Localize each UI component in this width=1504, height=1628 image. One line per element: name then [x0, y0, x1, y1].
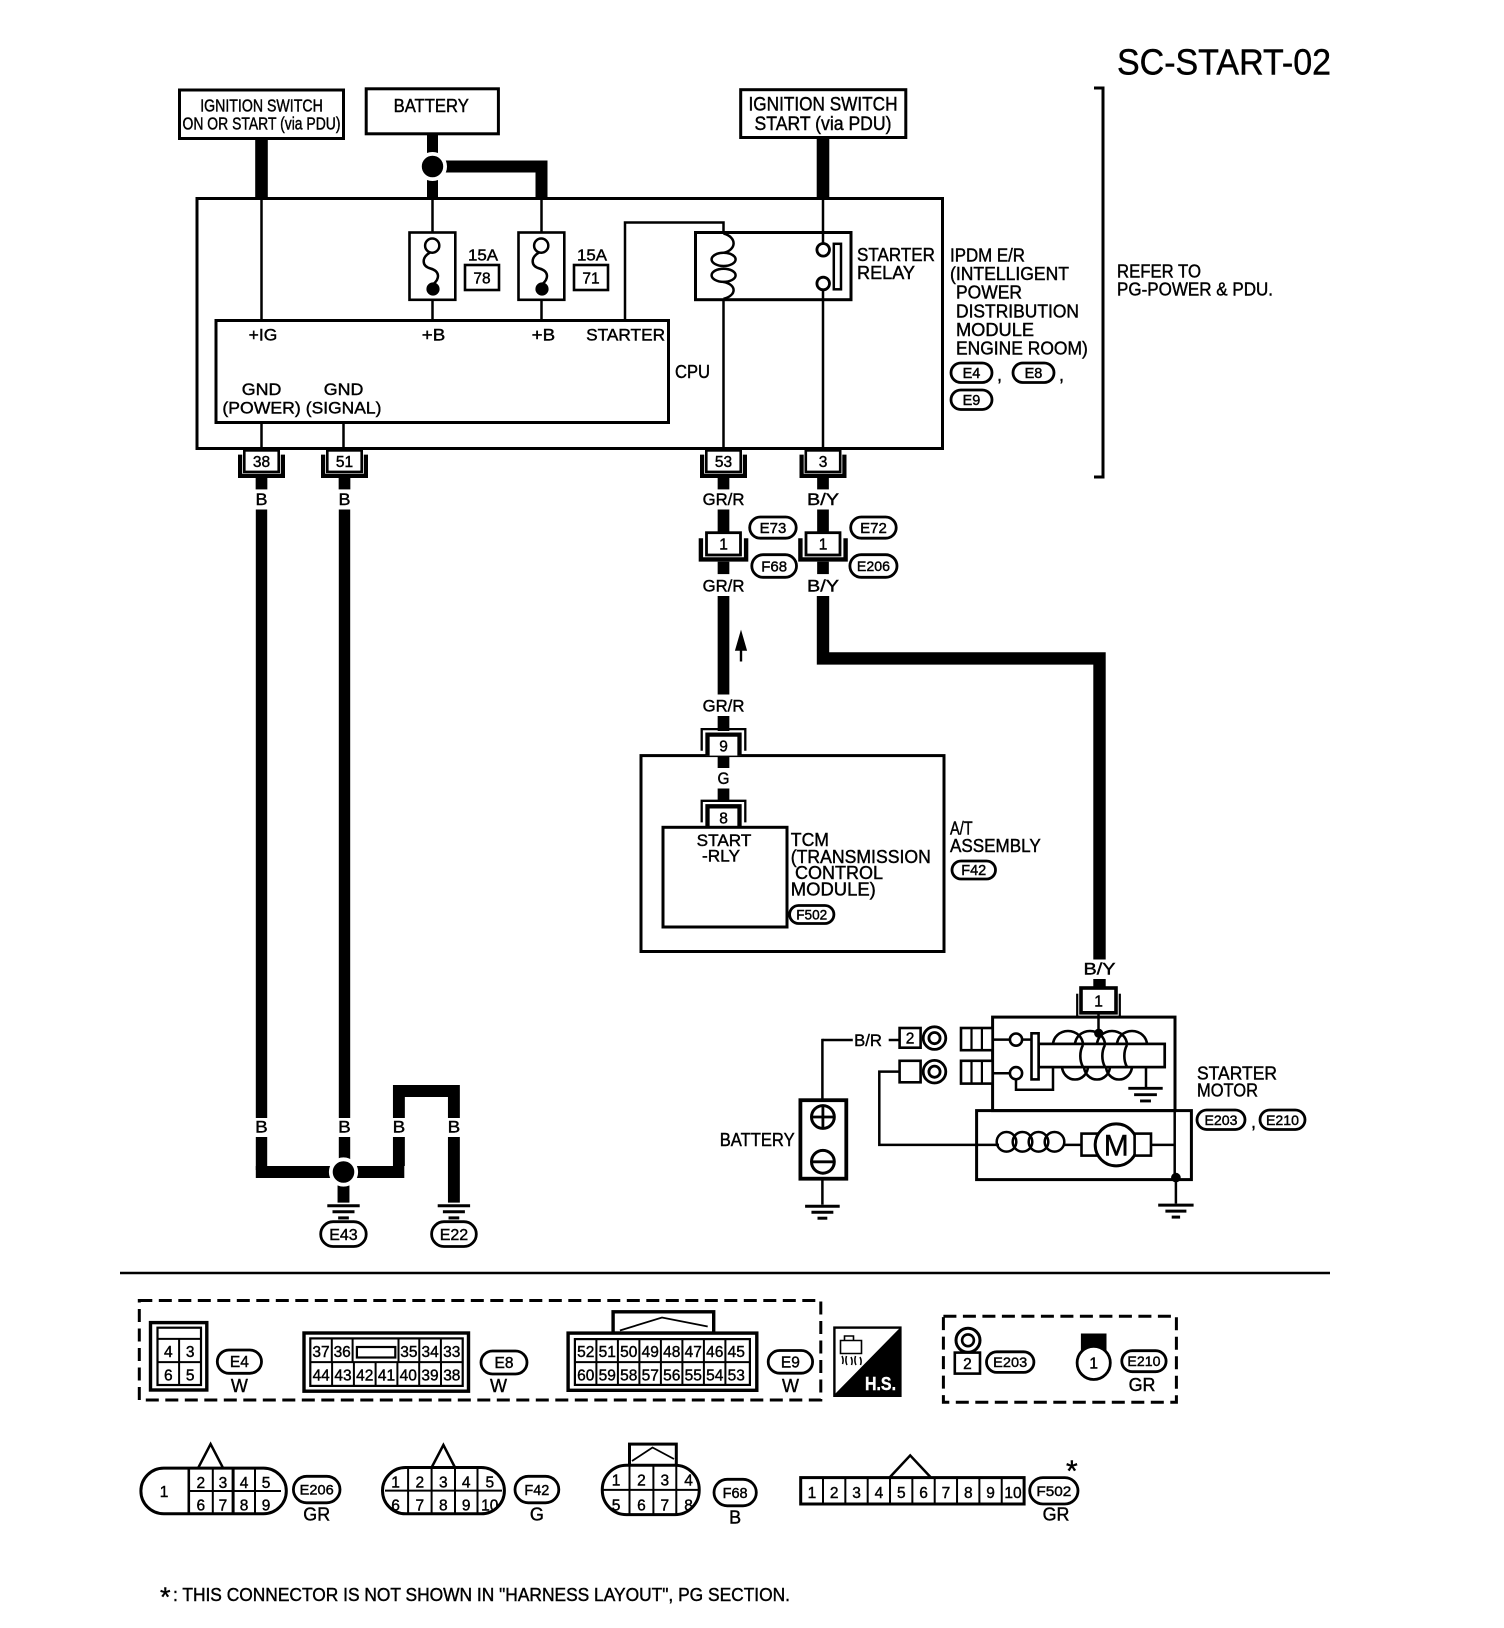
- connector ref E43: [321, 1222, 367, 1247]
- svg-text:15A: 15A: [468, 247, 499, 264]
- solenoid core bar: [1039, 1044, 1165, 1067]
- wire label B (left wire 4): [446, 1118, 463, 1137]
- wire stub below pin 51: [339, 478, 351, 489]
- connector ref F42 (detail): [515, 1476, 559, 1503]
- terminal hatch (upper): [961, 1028, 993, 1050]
- solenoid terminal circle (lower): [1010, 1067, 1022, 1079]
- svg-text:2: 2: [830, 1485, 839, 1502]
- H.S. logo connector pictogram: [841, 1336, 862, 1354]
- svg-text:B: B: [256, 490, 268, 509]
- wire: junction to ground: [1175, 1180, 1178, 1204]
- wire: fuse 71 top lead: [540, 199, 543, 234]
- connector ref F502: [790, 906, 834, 924]
- svg-text:REFER TO: REFER TO: [1117, 262, 1201, 282]
- svg-text:F42: F42: [524, 1483, 549, 1499]
- svg-text:B: B: [338, 1118, 351, 1137]
- module: A/T ASSEMBLY box: [641, 756, 944, 952]
- wire: pin 38 to ground E43 (B): [256, 510, 267, 1119]
- svg-text:3: 3: [660, 1473, 669, 1490]
- wire: field coil to motor brush: [1064, 1144, 1082, 1147]
- svg-text:2: 2: [415, 1475, 424, 1492]
- wire label GR/R (above TCM pin 9): [701, 697, 747, 716]
- svg-text:1: 1: [391, 1475, 400, 1492]
- svg-text:POWER: POWER: [956, 283, 1022, 303]
- wire: hatch to lower terminal: [993, 1072, 1010, 1075]
- wire: ignition switch on/start to IPDM +IG (thick B+): [255, 139, 268, 198]
- svg-text:(INTELLIGENT: (INTELLIGENT: [950, 264, 1069, 284]
- svg-text:7: 7: [660, 1498, 669, 1515]
- svg-text:9: 9: [986, 1485, 995, 1502]
- ground symbol E43: [327, 1204, 359, 1207]
- relay: STARTER RELAY box: [696, 233, 852, 300]
- svg-text:DISTRIBUTION: DISTRIBUTION: [956, 301, 1079, 321]
- connector ref E206 (detail): [293, 1476, 340, 1503]
- wire stub below pin 53: [718, 478, 730, 489]
- svg-text:3: 3: [439, 1475, 448, 1492]
- svg-text:GR/R: GR/R: [703, 490, 745, 509]
- connector ref F68: [752, 555, 797, 578]
- wire: inverted-U branch to ground E22 (B): [399, 1091, 454, 1166]
- svg-text:E8: E8: [1025, 366, 1043, 382]
- wire: fuse 71 bottom lead to CPU +B: [540, 300, 543, 321]
- pin 38 box: [244, 450, 278, 472]
- svg-text:,: ,: [997, 365, 1002, 385]
- motor field coil loops: [997, 1132, 1017, 1152]
- connector face F68: [630, 1444, 677, 1466]
- svg-text:B: B: [339, 490, 351, 509]
- pin 9 box: [706, 732, 742, 755]
- ground symbol E22: [438, 1204, 470, 1207]
- svg-text:59: 59: [599, 1367, 616, 1384]
- connector ref E203 (detail): [987, 1352, 1034, 1373]
- block: BATTERY: [366, 89, 498, 134]
- svg-text:IGNITION SWITCH: IGNITION SWITCH: [749, 95, 898, 116]
- motor armature M: [1095, 1124, 1137, 1166]
- fuse 78 (15A): [410, 233, 456, 300]
- connector face F502: [890, 1455, 932, 1477]
- wire: CPU GND(SIGNAL) to pin 51: [342, 423, 345, 452]
- svg-text:MOTOR: MOTOR: [1197, 1081, 1258, 1101]
- svg-text:2: 2: [963, 1356, 972, 1373]
- svg-text:E72: E72: [860, 520, 887, 537]
- svg-text:B/Y: B/Y: [1084, 960, 1116, 979]
- svg-text:42: 42: [356, 1367, 373, 1384]
- starter relay coil: [723, 234, 733, 253]
- wire: lower terminal to winding: [1016, 1067, 1053, 1090]
- wire stub below in-line connector at x=723.5: [718, 562, 730, 574]
- svg-text:38: 38: [253, 454, 270, 471]
- separator rule: [120, 1272, 1330, 1275]
- connector ref E210 (detail): [1122, 1351, 1166, 1372]
- svg-text:2: 2: [196, 1475, 205, 1492]
- motor brush (left): [1082, 1134, 1098, 1156]
- svg-text:9: 9: [262, 1498, 271, 1515]
- svg-text:ASSEMBLY: ASSEMBLY: [950, 836, 1041, 856]
- connector ref F68 (detail): [714, 1479, 756, 1506]
- svg-text:7: 7: [942, 1485, 951, 1502]
- svg-text:: THIS CONNECTOR IS NOT SHOWN: : THIS CONNECTOR IS NOT SHOWN IN "HARNES…: [173, 1585, 790, 1605]
- module: starter motor solenoid box: [993, 1017, 1175, 1111]
- svg-text:1: 1: [160, 1484, 169, 1501]
- svg-text:35: 35: [400, 1344, 417, 1361]
- svg-text:60: 60: [577, 1367, 595, 1384]
- svg-text:50: 50: [620, 1344, 638, 1361]
- svg-text:2: 2: [906, 1030, 915, 1047]
- module: IPDM E/R box: [197, 199, 943, 449]
- wire label B (pin 38): [254, 491, 270, 510]
- svg-text:IGNITION SWITCH: IGNITION SWITCH: [200, 96, 323, 116]
- svg-text:F502: F502: [796, 907, 827, 922]
- svg-text:GR: GR: [1129, 1375, 1156, 1395]
- wire label B/Y (above starter pin 1): [1082, 960, 1118, 979]
- svg-text:B/Y: B/Y: [807, 490, 839, 509]
- svg-text:GND: GND: [324, 380, 364, 399]
- wire stub below pin 3: [817, 478, 829, 489]
- connector ref E206: [850, 555, 897, 578]
- solenoid winding (upper arcs): [1053, 1031, 1083, 1045]
- svg-text:B/R: B/R: [854, 1031, 882, 1050]
- wire: +IG feed inside IPDM: [260, 199, 263, 321]
- svg-text:43: 43: [334, 1367, 351, 1384]
- svg-text:,: ,: [1059, 365, 1064, 385]
- svg-text:E9: E9: [781, 1354, 800, 1371]
- connector ref E203: [1197, 1110, 1245, 1130]
- svg-text:E206: E206: [857, 558, 890, 574]
- connector face E4: [151, 1323, 207, 1390]
- svg-text:W: W: [231, 1376, 248, 1396]
- svg-text:34: 34: [421, 1344, 439, 1361]
- node: solenoid coil junction dot: [1094, 1029, 1103, 1038]
- pin 53 box: [706, 450, 740, 472]
- wire: relay contact to pin 3: [822, 290, 825, 451]
- svg-text:5: 5: [897, 1485, 906, 1502]
- svg-text:5: 5: [612, 1498, 621, 1515]
- solenoid terminal circle (upper): [1022, 1038, 1032, 1041]
- svg-text:15A: 15A: [577, 247, 608, 264]
- svg-text:+IG: +IG: [249, 326, 278, 345]
- svg-text:-RLY: -RLY: [702, 847, 740, 866]
- svg-text:MODULE: MODULE: [956, 320, 1034, 340]
- svg-text:1: 1: [808, 1485, 817, 1502]
- svg-text:H.S.: H.S.: [865, 1374, 896, 1394]
- svg-text:6: 6: [196, 1498, 205, 1515]
- terminal hatch (lower): [961, 1061, 993, 1084]
- wire: GR/R from F68 down to TCM pin 9: [718, 596, 730, 695]
- wire: CPU GND(POWER) to pin 38: [260, 423, 263, 452]
- svg-text:E210: E210: [1266, 1112, 1299, 1128]
- fuse 78 number box: [465, 265, 499, 290]
- svg-text:B/Y: B/Y: [807, 577, 839, 596]
- svg-text:5: 5: [262, 1475, 271, 1492]
- svg-text:3: 3: [852, 1485, 861, 1502]
- svg-text:+B: +B: [532, 326, 556, 345]
- battery + terminal: [812, 1106, 835, 1129]
- pin 1 box: [1081, 988, 1116, 1013]
- block: TCM box: [663, 827, 787, 927]
- svg-text:G: G: [718, 769, 730, 788]
- pin 51 cup: [323, 455, 366, 476]
- svg-text:36: 36: [334, 1344, 351, 1361]
- svg-text:(POWER): (POWER): [222, 399, 300, 418]
- svg-text:54: 54: [706, 1367, 724, 1384]
- svg-text:GR: GR: [1043, 1505, 1070, 1525]
- ring terminal (upper): [923, 1027, 946, 1050]
- svg-text:6: 6: [637, 1498, 646, 1515]
- svg-text:8: 8: [719, 810, 728, 827]
- svg-text:40: 40: [400, 1367, 418, 1384]
- svg-text:1: 1: [1094, 994, 1103, 1011]
- in-line connector pin box at x=823: [806, 533, 840, 555]
- svg-text:E9: E9: [963, 393, 981, 409]
- svg-text:GND: GND: [242, 380, 282, 399]
- starter relay contact bar: [834, 244, 841, 289]
- svg-text:49: 49: [642, 1344, 659, 1361]
- wire: GR/R from pin 53 to in-line connector E73/F68: [718, 510, 730, 535]
- pin 9 outer cup: [702, 729, 746, 751]
- wire: motor to ground junction: [1151, 1144, 1175, 1147]
- wire label B (left wire 2): [336, 1118, 353, 1137]
- wire label B (left wire 3): [391, 1118, 408, 1137]
- bulb socket symbol: [1081, 1334, 1107, 1351]
- block: CPU box inside IPDM: [216, 321, 669, 423]
- wire: B/Y from pin 3 to in-line connector E72/E206: [817, 510, 829, 535]
- svg-text:,: ,: [1251, 1112, 1256, 1132]
- wire label GR/R (below F68): [701, 577, 747, 596]
- svg-text:6: 6: [919, 1485, 928, 1502]
- bracket: refer-to scope bracket: [1094, 88, 1103, 477]
- terminal box (unnumbered): [900, 1061, 921, 1083]
- svg-text:E43: E43: [329, 1227, 358, 1244]
- motor brush (right): [1135, 1134, 1151, 1156]
- wire: pin 1 into solenoid coil: [1097, 1012, 1100, 1031]
- wire: ground junction stub down to E43 ground: [338, 1172, 350, 1203]
- svg-text:71: 71: [582, 271, 599, 288]
- solenoid winding (loops across core): [1080, 1045, 1127, 1067]
- svg-text:GR/R: GR/R: [703, 577, 745, 596]
- svg-text:MODULE): MODULE): [791, 880, 876, 900]
- svg-text:IPDM E/R: IPDM E/R: [950, 246, 1025, 266]
- wire stub: wire label G to TCM pin 8: [718, 788, 730, 802]
- svg-text:4: 4: [240, 1475, 249, 1492]
- svg-text:G: G: [530, 1505, 544, 1525]
- pin 3 box: [806, 450, 840, 472]
- wire: lower terminal box to motor field coil: [879, 1072, 999, 1145]
- connector face E206: [198, 1444, 223, 1468]
- svg-text:9: 9: [462, 1498, 471, 1515]
- connector ref F502 (detail): [1030, 1478, 1078, 1504]
- node: motor ground junction dot: [1171, 1173, 1181, 1183]
- wire label B/Y (below E206): [805, 577, 841, 596]
- svg-text:E22: E22: [440, 1227, 469, 1244]
- wire: hatch to upper terminal: [993, 1038, 1010, 1041]
- svg-text:39: 39: [421, 1367, 438, 1384]
- svg-text:38: 38: [443, 1367, 460, 1384]
- svg-text:56: 56: [663, 1367, 680, 1384]
- wire label B (left wire 1): [253, 1118, 270, 1137]
- connector ref E4: [951, 363, 992, 383]
- ground symbol inside solenoid: [1128, 1087, 1162, 1090]
- terminal box 2 (detail): [955, 1353, 980, 1374]
- svg-text:58: 58: [620, 1367, 637, 1384]
- wire label B (pin 51): [337, 491, 353, 510]
- svg-text:GR/R: GR/R: [703, 697, 745, 716]
- svg-text:4: 4: [462, 1475, 471, 1492]
- in-line connector pin box at x=723.5: [707, 533, 741, 555]
- in-line connector cup at x=723.5: [701, 538, 746, 559]
- wire: ground bus horizontal to junction: [256, 1166, 404, 1178]
- wire stub below in-line connector at x=823: [817, 562, 829, 574]
- svg-text:53: 53: [715, 454, 732, 471]
- dashed group box (E203/E210): [943, 1316, 1176, 1402]
- svg-text:51: 51: [599, 1344, 616, 1361]
- svg-text:6: 6: [164, 1367, 173, 1384]
- svg-text:CPU: CPU: [675, 362, 710, 382]
- H.S. harness-side logo: [834, 1328, 900, 1396]
- svg-text:5: 5: [485, 1475, 494, 1492]
- svg-text:7: 7: [415, 1498, 424, 1515]
- svg-text:1: 1: [819, 537, 828, 554]
- connector ref E4 (detail): [217, 1350, 261, 1373]
- svg-text:47: 47: [685, 1344, 702, 1361]
- connector ref E73: [750, 517, 797, 538]
- wire stub: TCM pin 9 to wire label G: [718, 756, 730, 768]
- pin 51 box: [327, 450, 361, 472]
- svg-text:55: 55: [685, 1367, 702, 1384]
- wire stub below pin 38: [256, 478, 268, 489]
- connector face E8: [304, 1333, 469, 1391]
- svg-text:7: 7: [219, 1498, 228, 1515]
- fuse 71 number box: [574, 265, 608, 290]
- ground symbol (starter motor): [1158, 1204, 1193, 1207]
- svg-text:B: B: [729, 1508, 741, 1528]
- svg-text:GR: GR: [303, 1505, 330, 1525]
- svg-text:BATTERY: BATTERY: [394, 96, 469, 116]
- svg-text:E73: E73: [760, 520, 787, 537]
- pin 3 cup: [802, 455, 845, 476]
- svg-text:3: 3: [186, 1344, 195, 1361]
- svg-text:E203: E203: [1205, 1112, 1238, 1128]
- svg-text:B: B: [255, 1118, 268, 1137]
- wire: CPU STARTER output to relay coil: [625, 223, 724, 321]
- svg-text:START (via PDU): START (via PDU): [755, 114, 892, 135]
- svg-text:B: B: [393, 1118, 406, 1137]
- svg-text:STARTER: STARTER: [857, 245, 935, 265]
- svg-text:BATTERY: BATTERY: [720, 1130, 795, 1150]
- svg-text:RELAY: RELAY: [857, 263, 915, 283]
- svg-text:(SIGNAL): (SIGNAL): [306, 399, 382, 418]
- block: IGNITION SWITCH START (via PDU): [741, 90, 906, 138]
- svg-text:E210: E210: [1127, 1353, 1160, 1369]
- svg-text:E203: E203: [993, 1354, 1027, 1370]
- svg-text:8: 8: [684, 1498, 693, 1515]
- svg-text:8: 8: [439, 1498, 448, 1515]
- svg-text:5: 5: [186, 1367, 195, 1384]
- svg-text:E206: E206: [300, 1482, 334, 1498]
- svg-text:52: 52: [577, 1344, 594, 1361]
- wire: fuse 78 bottom lead to CPU +B: [431, 300, 434, 321]
- svg-text:46: 46: [706, 1344, 723, 1361]
- svg-text:9: 9: [719, 739, 728, 756]
- pin 53 cup: [702, 455, 745, 476]
- module: starter motor lower box: [977, 1111, 1192, 1180]
- starter relay contact circles: [817, 244, 830, 257]
- wire: pin 51 to ground junction (B): [339, 510, 350, 1119]
- svg-text:8: 8: [240, 1498, 249, 1515]
- svg-text:PG-POWER & PDU.: PG-POWER & PDU.: [1117, 280, 1273, 300]
- svg-text:3: 3: [219, 1475, 228, 1492]
- node: battery junction dot: [420, 154, 445, 179]
- svg-text:*: *: [1066, 1455, 1078, 1488]
- svg-text:48: 48: [663, 1344, 680, 1361]
- svg-text:6: 6: [391, 1498, 400, 1515]
- wire: battery feed down to fuse 78: [427, 133, 438, 198]
- svg-text:1: 1: [612, 1473, 621, 1490]
- terminal box 2: [900, 1028, 921, 1048]
- block: IGNITION SWITCH ON OR START (via PDU): [180, 90, 344, 139]
- connector ref E8: [1013, 363, 1054, 383]
- wire: ignition switch start to starter relay contact: [817, 137, 830, 198]
- fuse 71 (15A): [519, 233, 565, 300]
- wire: relay coil to pin 53: [722, 299, 725, 452]
- flow arrow on GR/R wire: [736, 632, 746, 650]
- svg-text:M: M: [1104, 1129, 1129, 1162]
- svg-text:W: W: [782, 1376, 799, 1396]
- svg-text:1: 1: [1089, 1356, 1098, 1373]
- svg-text:44: 44: [313, 1367, 331, 1384]
- svg-text:F42: F42: [961, 863, 986, 879]
- eyelet terminal symbol: [956, 1328, 980, 1352]
- svg-text:2: 2: [637, 1473, 646, 1490]
- svg-text:4: 4: [684, 1473, 693, 1490]
- svg-text:8: 8: [964, 1485, 973, 1502]
- connector ref E22: [432, 1222, 477, 1247]
- svg-text:51: 51: [336, 454, 353, 471]
- svg-text:+B: +B: [422, 326, 446, 345]
- wire: battery B/R feed: [822, 1039, 852, 1042]
- connector ref E9 (detail): [768, 1351, 812, 1374]
- wire label B/Y (pin 3): [805, 491, 841, 510]
- connector ref F42: [952, 861, 996, 879]
- svg-text:78: 78: [473, 271, 490, 288]
- svg-text:10: 10: [481, 1498, 499, 1515]
- svg-text:4: 4: [875, 1485, 884, 1502]
- wire label G: [716, 770, 732, 789]
- svg-text:53: 53: [728, 1367, 745, 1384]
- solenoid plunger bar: [1032, 1033, 1039, 1079]
- svg-text:57: 57: [642, 1367, 659, 1384]
- wire: fuse 78 top lead: [431, 199, 434, 234]
- solenoid winding (lower arcs): [1062, 1066, 1088, 1080]
- node: ground bus junction dot: [331, 1159, 356, 1184]
- wire: B/Y from E206 down, right and down to starter motor pin 1: [823, 596, 1100, 960]
- svg-text:E4: E4: [230, 1354, 249, 1371]
- svg-text:41: 41: [378, 1367, 395, 1384]
- wire: relay contact top lead: [822, 199, 825, 245]
- ring terminal (lower): [923, 1060, 946, 1083]
- svg-text:SC-START-02: SC-START-02: [1117, 42, 1331, 83]
- svg-text:1: 1: [719, 537, 728, 554]
- battery - terminal: [812, 1150, 835, 1173]
- svg-text:F68: F68: [761, 558, 787, 575]
- wire: winding to internal ground: [1145, 1067, 1148, 1088]
- svg-text:B: B: [448, 1118, 461, 1137]
- wire label GR/R (pin 53): [701, 491, 747, 510]
- svg-text:ON OR START (via PDU): ON OR START (via PDU): [183, 114, 341, 134]
- connector face E9: [613, 1312, 714, 1333]
- svg-text:ENGINE ROOM): ENGINE ROOM): [956, 339, 1088, 359]
- svg-text:37: 37: [312, 1344, 329, 1361]
- wire: battery to ground: [821, 1179, 824, 1205]
